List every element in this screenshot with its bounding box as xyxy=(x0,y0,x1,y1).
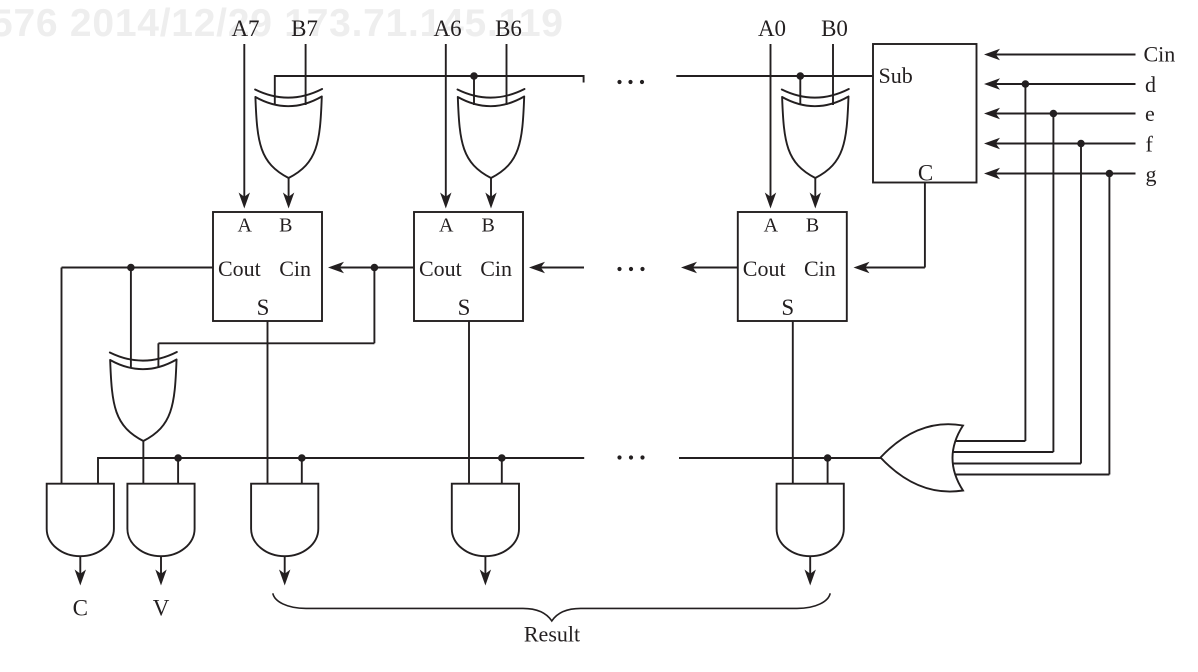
svg-text:C: C xyxy=(918,161,933,186)
svg-text:A6: A6 xyxy=(434,16,462,41)
wire into FA6 Cin xyxy=(541,267,585,269)
full adder FA6 (bit 6) xyxy=(414,212,523,321)
svg-text:Result: Result xyxy=(524,622,580,647)
wire e down to OR xyxy=(1052,114,1054,453)
junction g tap xyxy=(1106,170,1114,178)
wire XOR7 output xyxy=(288,178,290,197)
junction enable to AND-V xyxy=(174,454,182,462)
svg-text:A: A xyxy=(764,215,779,237)
svg-text:B0: B0 xyxy=(821,16,848,41)
wire AND-S7 output xyxy=(284,556,286,574)
wire A0 input xyxy=(770,44,772,197)
wire carry7 tap down xyxy=(373,268,375,344)
wire FA7 S down xyxy=(267,321,269,484)
arrowhead AND-S7 output xyxy=(279,570,290,586)
wire OR input 1 from d xyxy=(955,440,1025,442)
svg-text:S: S xyxy=(257,295,270,320)
and gate AND-V (overflow flag) xyxy=(127,484,194,557)
svg-text:A: A xyxy=(439,215,454,237)
xor gate XOR7 (B7 ^ Sub) xyxy=(255,89,322,178)
junction carry7 tap xyxy=(371,264,379,272)
wire carry7 to XOR-V right xyxy=(158,342,374,344)
arrowhead Cin into Sub box xyxy=(984,49,1000,60)
wire into XOR-V right input xyxy=(157,343,159,368)
svg-text:576 2014/12/29 173.71.145.119: 576 2014/12/29 173.71.145.119 xyxy=(0,2,563,45)
wire enable into AND-V xyxy=(177,458,179,484)
wire g input xyxy=(996,173,1136,175)
ellipsis carry chain xyxy=(617,267,644,271)
svg-text:A7: A7 xyxy=(231,16,259,41)
wire Sub into XOR6 xyxy=(473,76,475,105)
wire XOR-V output to AND-V xyxy=(142,441,144,484)
wire e input xyxy=(996,113,1136,115)
svg-text:B: B xyxy=(806,215,819,237)
svg-text:S: S xyxy=(781,295,794,320)
arrowhead A0 into FA0 A xyxy=(765,193,776,209)
wire B7 into XOR7 xyxy=(305,44,307,105)
wire B6 into XOR6 xyxy=(506,44,508,105)
svg-text:e: e xyxy=(1145,101,1155,126)
svg-text:g: g xyxy=(1146,162,1157,187)
svg-text:Sub: Sub xyxy=(879,63,913,88)
arrowhead XOR6 into FA6 B xyxy=(485,193,496,209)
arrowhead A6 into FA6 A xyxy=(440,193,451,209)
svg-text:Cin: Cin xyxy=(1144,42,1176,67)
arrowhead AND-S6 output xyxy=(480,570,491,586)
svg-text:Cout: Cout xyxy=(419,256,462,281)
junction e tap xyxy=(1050,110,1058,118)
svg-text:Cin: Cin xyxy=(480,256,512,281)
wire FA7 Cout left xyxy=(62,267,214,269)
arrowhead f into Sub box xyxy=(984,138,1000,149)
arrowhead XOR7 into FA7 B xyxy=(283,193,294,209)
ellipsis top Sub bus xyxy=(617,80,644,84)
or gate OR1 (enable defg) xyxy=(881,424,964,491)
wire Sub C output down xyxy=(924,183,926,268)
svg-text:S: S xyxy=(458,295,471,320)
svg-text:C: C xyxy=(73,596,88,621)
svg-text:f: f xyxy=(1146,132,1154,157)
svg-text:A: A xyxy=(237,215,252,237)
wire B0 into XOR0 xyxy=(832,44,834,105)
svg-text:A0: A0 xyxy=(758,16,786,41)
junction Sub bus to XOR6 xyxy=(470,72,478,80)
wire enable into AND-S6 xyxy=(501,458,503,484)
arrowhead AND-S0 output xyxy=(805,570,816,586)
full adder FA7 (bit 7) xyxy=(213,212,322,321)
wire Sub C to FA0 Cin xyxy=(865,267,925,269)
svg-text:B6: B6 xyxy=(495,16,522,41)
junction Sub bus to XOR0 xyxy=(797,72,805,80)
and gate AND-S7 xyxy=(251,484,318,556)
arrowhead AND-V output xyxy=(155,570,166,586)
wire AND-C output xyxy=(79,556,81,574)
arrowhead d into Sub box xyxy=(984,78,1000,89)
xor gate XOR6 (B6 ^ Sub) xyxy=(458,89,525,178)
wire f input xyxy=(996,143,1136,145)
svg-text:B: B xyxy=(279,215,292,237)
svg-text:d: d xyxy=(1145,72,1156,97)
wire FA0 Cout out xyxy=(693,267,738,269)
xor gate XOR0 (B0 ^ Sub) xyxy=(782,89,849,178)
wire OR input 3 from f xyxy=(953,463,1081,465)
wire enable bus right segment to OR output xyxy=(679,457,881,459)
wire d down to OR xyxy=(1024,84,1026,441)
wire XOR0 output xyxy=(814,178,816,197)
svg-text:Cin: Cin xyxy=(279,256,311,281)
ellipsis enable bus xyxy=(617,455,644,459)
wire d input xyxy=(996,83,1136,85)
svg-text:B7: B7 xyxy=(291,16,318,41)
wire Sub bus left segment xyxy=(275,76,584,105)
arrowhead into FA7 Cin xyxy=(328,262,344,273)
wire AND-S0 output xyxy=(809,556,811,574)
wire g down to OR xyxy=(1108,174,1110,475)
wire enable into AND-S7 xyxy=(301,458,303,484)
wire Cout8 down to AND-C xyxy=(61,268,63,484)
junction d tap xyxy=(1022,80,1030,88)
wire enable into AND-S0 xyxy=(827,458,829,484)
wire A7 input xyxy=(243,44,245,197)
wire Cout8 into XOR-V left xyxy=(130,268,132,369)
svg-text:V: V xyxy=(153,596,170,621)
wire AND-V output xyxy=(160,556,162,574)
arrowhead A7 into FA7 A xyxy=(239,193,250,209)
wire Cin input xyxy=(996,54,1136,56)
brace Result xyxy=(273,593,830,621)
svg-text:Cin: Cin xyxy=(804,256,836,281)
wire Sub bus right segment xyxy=(676,75,873,77)
wire FA6 Cout to FA7 Cin xyxy=(340,267,415,269)
xor gate XOR-V (overflow) xyxy=(110,352,177,441)
arrowhead FA0 Cout toward chain xyxy=(681,262,697,273)
svg-text:B: B xyxy=(482,215,495,237)
wire f down to OR xyxy=(1080,144,1082,464)
svg-text:Cout: Cout xyxy=(743,256,786,281)
wire FA0 S down xyxy=(792,321,794,484)
junction f tap xyxy=(1077,140,1085,148)
and gate AND-S6 xyxy=(452,484,519,557)
wire FA6 S down xyxy=(468,321,470,484)
arrowhead e into Sub box xyxy=(984,108,1000,119)
arrowhead g into Sub box xyxy=(984,168,1000,179)
wire A6 input xyxy=(445,44,447,197)
wire Sub into XOR0 xyxy=(799,76,801,105)
wire OR input 2 from e xyxy=(953,451,1054,453)
wire AND-S6 output xyxy=(484,556,486,574)
Sub control box U-SUB xyxy=(873,44,977,186)
and gate AND-C (carry flag) xyxy=(47,484,114,557)
arrowhead XOR0 into FA0 B xyxy=(810,193,821,209)
and gate AND-S0 xyxy=(777,484,844,557)
arrowhead AND-C output xyxy=(75,570,86,586)
junction enable to AND-S6 xyxy=(498,454,506,462)
full adder FA0 (bit 0) xyxy=(738,212,847,321)
wire XOR6 output xyxy=(490,178,492,197)
arrowhead into FA6 Cin xyxy=(529,262,545,273)
svg-text:Cout: Cout xyxy=(218,256,261,281)
wire enable bus left segment xyxy=(98,458,584,484)
junction enable to AND-S0 xyxy=(824,454,832,462)
arrowhead into FA0 Cin xyxy=(854,262,870,273)
wire OR input 4 from g xyxy=(955,474,1109,476)
junction enable to AND-S7 xyxy=(298,454,306,462)
junction Cout8 tap to XOR-V xyxy=(127,264,135,272)
